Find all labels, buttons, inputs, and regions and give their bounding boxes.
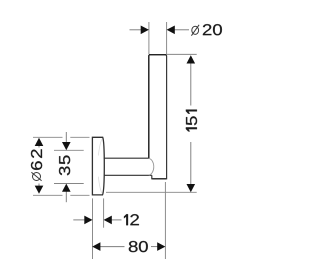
dimension line of diameter-62 upper part: [38, 144, 40, 148]
extension line top of 35 dimension: [54, 149, 84, 151]
value label 20: [203, 24, 222, 35]
wall plate outline (side view): [92, 137, 104, 195]
arrow pointing left at plate front line: [104, 216, 112, 225]
extension line left of 12 dimension (plate back): [92, 198, 94, 259]
dimension line of diameter-62 lower part: [38, 184, 40, 190]
arrow pointing up at top of diameter-62: [35, 138, 44, 146]
extension line bottom of 151 dimension: [106, 191, 197, 193]
rod bottom edge bold: [152, 178, 166, 180]
rod left edge emphasis: [148, 55, 150, 158]
dimension line of 151 upper part: [190, 61, 192, 106]
arrow pointing up below 35 span: [62, 184, 71, 192]
arm top edge: [104, 157, 149, 159]
value label 80: [129, 241, 148, 252]
arrow pointing right at left extension line: [141, 26, 149, 35]
wall plate dome contour upper faint arc: [98, 139, 102, 156]
arrow pointing left at right extension line: [167, 26, 175, 35]
arrow pointing down at bottom of diameter-62: [35, 186, 44, 194]
rod top edge bold: [149, 54, 167, 56]
arrow pointing up at top of 151: [187, 55, 196, 63]
extension line right of diameter-20 dimension: [166, 22, 168, 54]
value label 12: [124, 214, 139, 225]
extension line bottom of diameter-62 dimension: [33, 194, 63, 196]
dimension line of 35 above: [65, 132, 67, 143]
arrow pointing right at rod line of 80: [157, 242, 165, 251]
dimension line left segment of 12: [73, 219, 85, 221]
arrow pointing right at plate back line: [84, 216, 92, 225]
dimension line left segment of diameter-20: [130, 29, 142, 31]
dimension line of 80 right part: [151, 246, 159, 248]
arrow pointing left at wall line of 80: [92, 242, 100, 251]
extension line bottom of 35 dimension: [54, 183, 84, 185]
extension line top of 151 dimension: [167, 53, 197, 55]
value label 151 rotated: [186, 110, 197, 132]
extension line right of 12 dimension (plate front): [103, 198, 105, 227]
diameter symbol of "d20" label: [191, 25, 199, 36]
dimension line right segment of 12: [111, 219, 122, 221]
joint arc between arm and rod: [149, 158, 154, 175]
wall plate dome contour lower faint arc: [98, 177, 102, 194]
value label diameter 62 rotated: [31, 149, 42, 180]
arrow pointing down at bottom of 151: [187, 184, 196, 192]
extension line right of 80 dimension (rod outer edge): [164, 182, 166, 259]
arm bottom edge: [104, 174, 152, 176]
dimension line of 80 left part: [100, 246, 125, 248]
arrow pointing down above 35 span: [62, 142, 71, 150]
vertical rod outline: [149, 55, 167, 179]
extension line left of diameter-20 dimension: [148, 22, 150, 54]
value label 35 rotated: [59, 155, 70, 175]
dimension line of 151 lower part: [190, 142, 192, 187]
dimension line of 35 below: [65, 192, 67, 203]
extension line top of diameter-62 dimension: [33, 136, 63, 138]
dimension line right segment of diameter-20: [174, 29, 189, 31]
